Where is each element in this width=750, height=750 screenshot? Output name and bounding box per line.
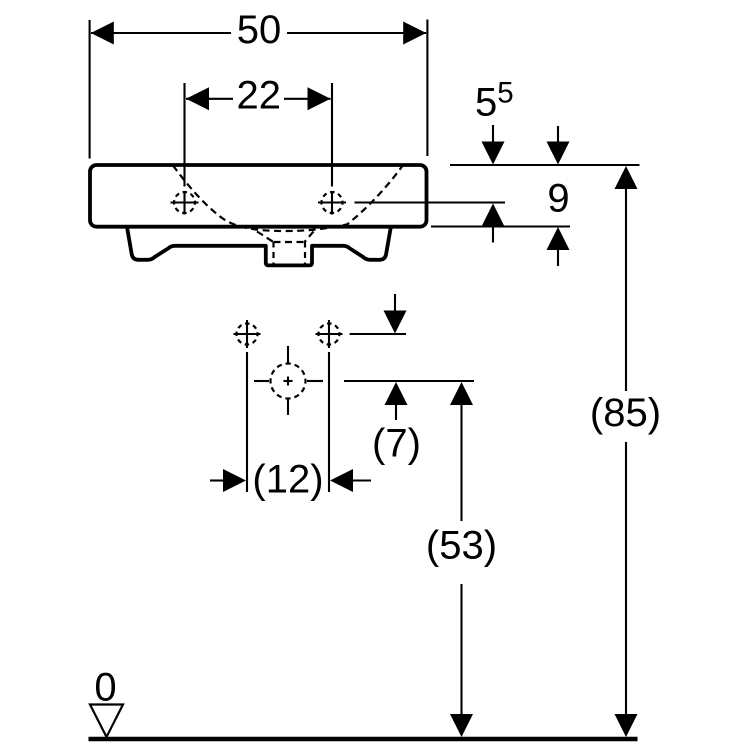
- reference line tap hole right: [355, 201, 506, 203]
- mounting hole left cross horizontal: [234, 333, 261, 335]
- dimension 53 lower arrow: [450, 714, 473, 737]
- dimension 53 lower stem: [460, 584, 462, 715]
- dimension 12 arrow right: [330, 469, 353, 492]
- waste hole centerline vertical top: [287, 346, 289, 363]
- dimension 9 upper arrow: [547, 142, 570, 165]
- dimension 22 line right segment: [284, 98, 331, 100]
- bowl-to-drain funnel dashed left: [257, 232, 274, 243]
- dimension 5.5 lower arrow: [482, 204, 505, 227]
- waste hole center cross horizontal: [284, 380, 293, 382]
- dimension 9 lower arrow: [547, 227, 570, 250]
- waste hole dashed circle: [271, 364, 306, 399]
- tap hole left dashed circle: [174, 192, 195, 213]
- mounting hole right dashed circle: [319, 324, 340, 345]
- dimension 53 upper stem: [460, 405, 462, 521]
- dimension 85 upper arrow: [615, 166, 638, 189]
- waste hole centerline vertical bottom: [287, 399, 289, 415]
- dimension 22 arrow right: [308, 87, 331, 110]
- waste hole centerline horizontal left: [254, 380, 269, 382]
- reference line waste hole right: [344, 380, 474, 382]
- dimension 5.5 upper arrow stem: [492, 125, 494, 150]
- waste hole centerline horizontal right: [307, 380, 323, 382]
- dimension 22 extension line right: [331, 83, 333, 187]
- datum triangle: [90, 705, 123, 738]
- dimension 85 lower arrow: [615, 714, 638, 737]
- svg-text:22: 22: [237, 74, 282, 118]
- svg-text:(85): (85): [590, 391, 661, 435]
- dimension 7 upper arrow: [384, 311, 407, 334]
- svg-text:0: 0: [94, 666, 116, 710]
- dimension 9 upper arrow stem: [557, 126, 559, 150]
- reference line basin bottom right: [431, 225, 570, 227]
- floor line: [89, 737, 638, 742]
- svg-text:(12): (12): [252, 458, 323, 502]
- drain top dashed line: [274, 241, 305, 243]
- dimension 22 line left segment: [186, 98, 233, 100]
- tap hole right dashed circle: [322, 192, 343, 213]
- tap hole right cross vertical arm: [331, 192, 333, 215]
- dimension 7 upper arrow stem: [394, 294, 396, 318]
- svg-text:9: 9: [547, 177, 569, 221]
- dimension 53 upper arrow: [450, 382, 473, 405]
- svg-text:(7): (7): [372, 422, 421, 466]
- mounting hole left cross vertical: [246, 320, 248, 348]
- dimension 50 extension line right: [426, 20, 428, 157]
- svg-text:50: 50: [237, 8, 282, 52]
- dimension 50 arrow right: [403, 22, 426, 45]
- pedestal and trap cover outline: [127, 227, 391, 265]
- dimension 50 line right segment: [287, 32, 426, 34]
- drain pipe dashed line left: [272, 242, 274, 265]
- dimension 5.5 upper arrow: [482, 142, 505, 165]
- dimension 50 line left segment: [91, 32, 231, 34]
- mounting hole right cross vertical: [328, 320, 330, 348]
- basin body outline: [90, 165, 427, 227]
- dimension 12 arrow left tail: [210, 479, 224, 481]
- dimension 50 extension line left: [89, 20, 91, 159]
- reference line basin rim right: [450, 164, 640, 166]
- dimension 85 upper stem: [625, 189, 627, 391]
- dimension 12 arrow left: [223, 469, 246, 492]
- dimension 12 extension line right: [328, 352, 330, 492]
- dimension 50 arrow left: [91, 22, 114, 45]
- dimension 7 lower arrow: [385, 382, 408, 405]
- svg-text:(53): (53): [426, 524, 497, 568]
- dimension 12 arrow right tail: [353, 479, 371, 481]
- dimension 12 extension line left: [246, 352, 248, 492]
- waste hole center cross vertical: [287, 377, 289, 386]
- dimension 7 lower arrow stem: [395, 405, 397, 420]
- dimension 5.5 lower arrow stem: [492, 227, 494, 243]
- basin bowl dashed outline: [173, 166, 402, 232]
- mounting hole right cross horizontal: [316, 333, 343, 335]
- reference line mounting holes right: [350, 333, 406, 335]
- mounting hole left dashed circle: [237, 324, 258, 345]
- bowl-to-drain funnel dashed right: [305, 232, 314, 243]
- tap hole right cross horizontal arm: [318, 201, 346, 203]
- dimension 85 lower stem: [625, 442, 627, 715]
- tap hole left cross vertical arm: [183, 192, 185, 215]
- dimension 9 lower arrow stem: [557, 250, 559, 266]
- drain pipe dashed line right: [304, 242, 306, 265]
- dimension 22 arrow left: [186, 87, 209, 110]
- tap hole left cross horizontal arm: [171, 201, 199, 203]
- dimension 22 extension line left: [183, 83, 185, 187]
